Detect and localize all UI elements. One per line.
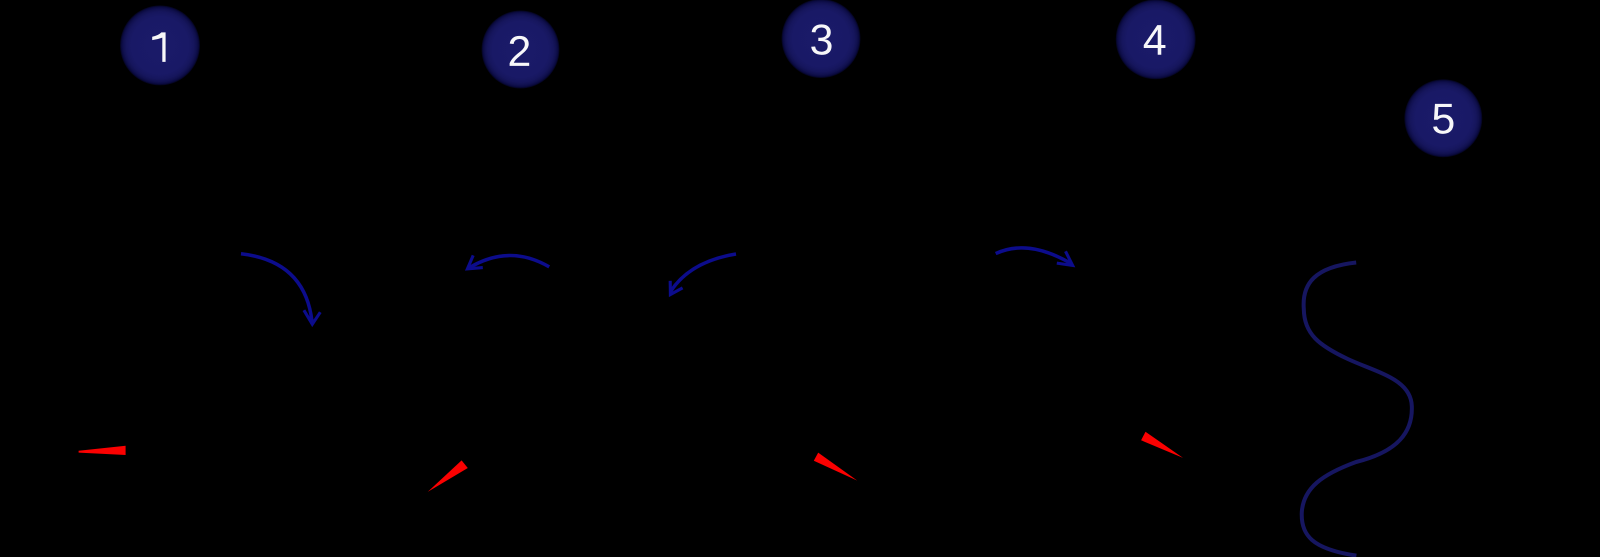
step marker 5 (numbered circle) <box>1404 79 1482 157</box>
curved electron-pushing arrow, step 2 (bends up-left) <box>467 255 549 269</box>
curved electron-pushing arrow, step 3 (bends down-left) <box>670 254 736 295</box>
step marker 4 (numbered circle) <box>1116 0 1196 79</box>
step marker 3 (numbered circle) <box>782 0 861 78</box>
polymer squiggle curve, step 5 <box>1302 263 1412 556</box>
step marker 2 (numbered circle) <box>482 11 560 89</box>
red wedge bond, molecule 2 (points up-right, thick end top) <box>428 460 468 492</box>
red wedge bond, molecule 1 (horizontal, thick end right) <box>79 446 126 455</box>
red wedge bond, molecule 4 (thick end top-left, tip bottom-right) <box>1141 432 1183 458</box>
red wedge bond, molecule 3 (thick end top-left, tip bottom-right) <box>814 453 858 481</box>
curved electron-pushing arrow, step 4 (bends up-right) <box>996 248 1073 266</box>
step marker 1 (numbered circle) <box>120 5 200 85</box>
curved electron-pushing arrow, step 1 (bends down-right) <box>241 254 320 324</box>
